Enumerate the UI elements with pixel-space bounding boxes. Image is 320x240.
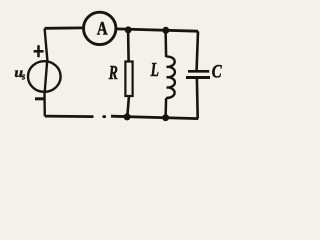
svg-text:L: L (150, 59, 159, 81)
svg-text:C: C (212, 61, 222, 82)
svg-text:A: A (97, 18, 108, 39)
svg-text:s: s (21, 72, 25, 83)
svg-text:R: R (108, 62, 118, 84)
